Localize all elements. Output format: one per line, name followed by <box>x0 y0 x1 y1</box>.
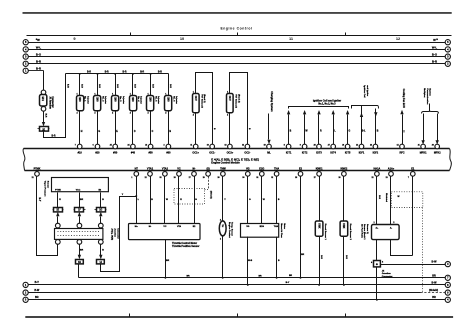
svg-text:12: 12 <box>242 145 244 147</box>
connector box 1G <box>97 208 106 212</box>
connector circle left A <box>23 40 28 45</box>
wire from injector 5 to ECM pin #50 <box>150 111 152 145</box>
wire from connector 1H to ground line <box>78 264 80 278</box>
svg-text:Throttle Position Sensor: Throttle Position Sensor <box>172 245 199 248</box>
svg-text:1N0: 1N0 <box>149 97 152 102</box>
svg-text:M-: M- <box>193 168 196 171</box>
svg-text:W-L: W-L <box>432 45 438 49</box>
node at throttle pin 1 branch <box>135 195 137 197</box>
ECM bottom pin (S) <box>206 172 211 177</box>
svg-text:B-Y: B-Y <box>38 198 40 202</box>
shield dotted box around AF sensor wires <box>391 192 422 208</box>
svg-text:No. 6: No. 6 <box>172 96 174 102</box>
wire ignition IGT3 to ECM <box>318 115 320 145</box>
svg-text:OC1-: OC1- <box>209 151 215 154</box>
svg-text:B-R: B-R <box>98 84 100 88</box>
junction connector dotted internals row 2 <box>58 235 101 237</box>
svg-text:BR: BR <box>80 199 84 201</box>
svg-text:B-R: B-R <box>87 72 91 74</box>
svg-text:23: 23 <box>386 177 388 179</box>
connector box 1E <box>54 208 63 212</box>
wire ECM E2 to sensor ground line <box>300 177 302 278</box>
ECM strip left torn edge <box>23 149 25 171</box>
ECM top pin IGF1 <box>359 144 364 149</box>
svg-text:18: 18 <box>174 177 176 179</box>
wire ECM to throttle pin 4 <box>178 177 180 224</box>
svg-text:21: 21 <box>32 177 34 179</box>
throttle control motor / throttle position sensor (box) <box>129 224 201 240</box>
svg-text:1: 1 <box>131 177 132 179</box>
svg-text:RFC: RFC <box>399 151 404 154</box>
svg-text:(Shield): (Shield) <box>210 191 212 199</box>
svg-text:Junction: Junction <box>382 272 392 275</box>
svg-text:27: 27 <box>328 145 330 147</box>
injector 2 (box) <box>94 96 101 111</box>
injector 5 (box) <box>147 96 154 111</box>
svg-text:31: 31 <box>418 145 420 147</box>
wire throttle ground pin to sensor ground line <box>165 240 167 278</box>
wire ECM KNK2 through knock sensor 2 <box>343 177 345 285</box>
wire from injector 1 to ECM pin #10 <box>79 111 81 145</box>
svg-text:B-W: B-W <box>432 261 438 264</box>
junction connector J5 (box with node) <box>374 261 381 267</box>
ECM bottom pin VTA1 <box>148 172 153 177</box>
svg-text:Knock Sensor 2: Knock Sensor 2 <box>349 224 351 241</box>
svg-text:(Shield): (Shield) <box>429 289 438 292</box>
wire from bus to injector 6 <box>168 74 170 96</box>
svg-text:1N0: 1N0 <box>131 97 134 102</box>
svg-text:#40: #40 <box>131 151 136 154</box>
svg-text:HT: HT <box>135 168 139 171</box>
svg-text:IGF2: IGF2 <box>373 151 379 154</box>
svg-text:W-L: W-L <box>36 45 42 49</box>
svg-text:Junction: Junction <box>114 228 117 238</box>
ECM top pin #20 <box>95 144 100 149</box>
air fuel ratio sensor (box) <box>372 225 400 240</box>
ECM bottom pin E2 <box>298 172 303 177</box>
svg-text:26: 26 <box>339 177 341 179</box>
arrow up into connector 1G <box>99 212 102 216</box>
wire ECM to throttle pin 3 <box>164 177 166 224</box>
ECM bottom pin VG <box>246 172 251 177</box>
bottom ruler tick 1 <box>129 314 131 317</box>
junction on injector bus <box>150 73 152 75</box>
ignition coil bracket line <box>289 107 349 109</box>
svg-text:B-R: B-R <box>116 84 118 88</box>
IGF bracket line <box>352 106 379 109</box>
svg-text:OC2+: OC2+ <box>227 151 234 154</box>
wire air flow meter pin to ground line B-Y <box>247 237 249 285</box>
ECM bottom pin THA <box>274 172 279 177</box>
wire ignition IGT4 to ECM <box>333 115 335 145</box>
multiplex brace <box>422 111 439 114</box>
svg-text:B-Y: B-Y <box>286 282 290 284</box>
wire from vapor sensor pin 3 <box>100 193 102 208</box>
svg-text:IGT3: IGT3 <box>316 151 322 154</box>
svg-text:19: 19 <box>264 145 266 147</box>
svg-text:B-Y: B-Y <box>35 281 40 284</box>
wire multiplex MPX1 with arrow down <box>423 114 425 141</box>
svg-text:2E: 2E <box>42 128 45 131</box>
junction on injector bus <box>132 73 134 75</box>
connector circle right shield <box>445 290 450 295</box>
svg-text:No.1, No.2, No.3: No.1, No.2, No.3 <box>318 103 336 105</box>
wire ignition IGT5 to ECM <box>347 115 349 145</box>
svg-text:IGT5: IGT5 <box>345 151 351 154</box>
wire from injector 2 to ECM pin #20 <box>97 111 99 145</box>
knock sensor 1 (box) <box>315 221 323 236</box>
svg-text:Engine Control Module: Engine Control Module <box>211 161 240 165</box>
ECM strip bottom edge <box>25 170 450 172</box>
ECM top pin #50 <box>148 144 153 149</box>
svg-text:Engine Control: Engine Control <box>221 26 253 30</box>
svg-text:B-R: B-R <box>134 84 136 88</box>
bottom ruler tick 2 <box>237 314 239 317</box>
svg-text:32: 32 <box>160 177 162 179</box>
svg-text:B-R: B-R <box>66 84 68 88</box>
wire ECM to throttle pin 2 <box>150 177 152 224</box>
svg-text:No. 3: No. 3 <box>119 96 121 102</box>
ECM top pin IGT5 <box>345 144 350 149</box>
wire ECM THW to coolant temp sensor <box>222 177 224 222</box>
svg-text:24: 24 <box>128 144 130 147</box>
connector circle right A <box>445 40 450 45</box>
wire ignition IGT1 to ECM <box>288 115 290 145</box>
svg-text:B-R: B-R <box>105 72 109 74</box>
connector circle right B-W top <box>445 262 450 267</box>
connector circle left BR <box>23 297 28 302</box>
svg-text:MPX2: MPX2 <box>434 151 441 154</box>
svg-text:#60: #60 <box>166 151 171 154</box>
wire ECM E1 down <box>412 177 414 256</box>
ECM bottom pin E2G <box>260 172 265 177</box>
svg-text:Temp. Sensor: Temp. Sensor <box>231 222 233 236</box>
bottom ruler tick 3 <box>345 314 347 317</box>
connector box 1J <box>97 260 105 264</box>
svg-text:30: 30 <box>432 145 434 147</box>
wire from junction pin 2 down with arrow into connector 1H <box>79 245 81 256</box>
shield drain dashed segment to connector <box>421 292 446 294</box>
svg-text:Air Fuel Ratio: Air Fuel Ratio <box>360 224 363 239</box>
svg-text:B-R: B-R <box>158 72 162 74</box>
wire from connector 1J up to throttle node <box>101 197 137 272</box>
svg-text:B-R: B-R <box>151 84 153 88</box>
connector circle left E <box>23 68 28 73</box>
connector circle left B-Y <box>23 282 28 287</box>
svg-text:Injector: Injector <box>104 96 107 104</box>
ECM bottom pin KNK1 <box>317 172 322 177</box>
svg-text:B-R: B-R <box>320 255 322 259</box>
arrow into fuse box <box>42 122 45 126</box>
wire from injector 6 to ECM pin #60 <box>168 111 170 145</box>
svg-text:9: 9 <box>300 145 301 147</box>
arrow up to cooling fan ECU and wire to ECM pin RFC <box>400 110 403 114</box>
top ruler line <box>27 35 452 37</box>
svg-text:BR: BR <box>432 296 436 299</box>
svg-text:B-R: B-R <box>378 195 380 199</box>
svg-text:10: 10 <box>180 36 184 41</box>
wire AF sensor pin loop to ECM E1 <box>391 240 413 256</box>
svg-text:B-R: B-R <box>80 84 82 88</box>
shield drain dotted wire down to shield ground line <box>422 208 424 293</box>
wire from bus to injector 3 <box>115 74 117 96</box>
svg-text:No. 1: No. 1 <box>84 96 86 102</box>
oil control valve OCV1 (box) <box>193 94 200 113</box>
ECM top pin OC2- <box>245 144 250 149</box>
wire from bus to injector 2 <box>97 74 99 96</box>
svg-text:A-: A- <box>390 226 393 229</box>
svg-text:Sensor: Sensor <box>46 181 48 188</box>
svg-text:VG: VG <box>246 226 249 228</box>
svg-text:W: W <box>433 38 436 42</box>
svg-text:1N0: 1N0 <box>78 97 81 102</box>
svg-text:B-R: B-R <box>36 67 41 71</box>
junction connector bottom pin 3 <box>98 240 103 245</box>
svg-text:1N0: 1N0 <box>167 97 170 102</box>
ECM bottom pin HT <box>134 172 139 177</box>
wire ECM to throttle pin 5 <box>194 177 196 224</box>
arrow up to ignition coil 3 <box>317 110 320 114</box>
junction connector J7 J8 (box) <box>55 229 103 240</box>
ECM top pin #60 <box>166 144 171 149</box>
svg-text:28: 28 <box>295 177 297 179</box>
svg-text:IGT4: IGT4 <box>330 151 336 154</box>
svg-text:14: 14 <box>397 144 399 147</box>
svg-text:A1A+: A1A+ <box>388 168 395 171</box>
svg-text:B-R: B-R <box>45 114 47 118</box>
ECM top pin IGT1 <box>286 144 291 149</box>
svg-text:Mass Air Flow: Mass Air Flow <box>280 223 283 238</box>
ECM bottom pin PTNK <box>35 172 40 177</box>
svg-text:1N0: 1N0 <box>113 97 116 102</box>
arrow down on IGF2 wire <box>375 109 377 145</box>
svg-text:26: 26 <box>342 145 344 147</box>
wire J5 to body ground connector right B-W <box>381 264 446 266</box>
svg-text:MPX1: MPX1 <box>420 151 427 154</box>
svg-text:ML: ML <box>267 151 271 154</box>
wire from connector E down to check connector <box>43 71 45 91</box>
svg-text:B-R: B-R <box>169 84 171 88</box>
junction on injector bus <box>114 73 116 75</box>
svg-text:#10: #10 <box>78 151 83 154</box>
injector 4 (box) <box>130 96 137 111</box>
svg-text:and Igniter: and Igniter <box>366 85 369 96</box>
svg-text:7: 7 <box>408 177 409 179</box>
svg-text:No. 2: No. 2 <box>102 96 104 102</box>
arrow up into connector 1F <box>78 212 81 216</box>
wire multiplex MPX2 with arrow down <box>437 114 439 141</box>
svg-text:Connector: Connector <box>116 228 119 239</box>
svg-text:10: 10 <box>207 145 209 147</box>
oil control valve OCV2 (box) <box>227 94 234 113</box>
svg-text:22: 22 <box>372 177 374 179</box>
junction on injector bus <box>97 73 99 75</box>
svg-text:W-B: W-B <box>248 260 253 262</box>
connector circle right B-W ground <box>445 282 450 287</box>
svg-text:B-O: B-O <box>36 53 42 57</box>
junction connector top pin 2 <box>77 223 82 228</box>
svg-text:BR: BR <box>432 274 436 277</box>
svg-text:IGT1: IGT1 <box>286 151 292 154</box>
svg-text:B-W: B-W <box>34 289 40 292</box>
shield box around throttle sensor wires <box>174 189 205 205</box>
knock sensor 2 (box) <box>340 221 348 236</box>
svg-text:Sensor (Bank 1: Sensor (Bank 1 <box>363 224 365 240</box>
svg-text:OC2-: OC2- <box>244 151 250 154</box>
connector circle left B <box>23 47 28 52</box>
svg-text:22: 22 <box>145 177 147 179</box>
svg-text:Engine Coolant: Engine Coolant <box>228 222 231 238</box>
camshaft timing oil control valve 1 loop wire <box>196 73 213 145</box>
wire PTNK from ECM down around to junction connector <box>37 177 58 256</box>
wire from vapor sensor pin 1 <box>57 193 59 208</box>
svg-text:B-W: B-W <box>432 281 438 284</box>
wire ignition IGT2 to ECM <box>304 115 306 145</box>
svg-text:B-R: B-R <box>36 60 41 64</box>
wire from injector 4 to ECM pin #40 <box>132 111 134 145</box>
svg-text:B-L: B-L <box>362 131 366 133</box>
svg-text:B-R: B-R <box>345 255 347 259</box>
svg-text:24: 24 <box>356 144 358 147</box>
svg-text:Meter: Meter <box>283 223 286 229</box>
arrow up to ignition coil 4 <box>332 110 335 114</box>
ECM top pin IGF2 <box>373 144 378 149</box>
fuse box 25 (EFI relay) <box>40 127 49 132</box>
ECM strip right torn edge <box>450 149 452 171</box>
svg-text:#50: #50 <box>149 151 154 154</box>
junction on sensor ground at E2 <box>300 277 302 279</box>
connector circle left B-W <box>23 290 28 295</box>
junction connector dotted internals row 1 <box>58 231 101 233</box>
wire from bus to injector 1 <box>79 74 81 96</box>
svg-text:KNK2: KNK2 <box>341 168 348 171</box>
connector J6 (check connector) <box>40 95 47 107</box>
injector 3 (box) <box>112 96 119 111</box>
injector 6 (box) <box>165 96 172 111</box>
wire ECM to throttle pin 1 <box>136 177 138 224</box>
wire ECM to sensor box pin 3 <box>276 177 278 224</box>
svg-text:23: 23 <box>370 145 372 147</box>
connector circle right B <box>445 47 450 52</box>
svg-text:1E: 1E <box>56 210 59 212</box>
pin 2 of check connector J6 <box>41 107 46 112</box>
svg-text:6: 6 <box>93 145 94 147</box>
ground line B-W left to shield dashed right <box>29 292 421 294</box>
wire W-L bus from node B left to right <box>29 49 446 51</box>
svg-text:#30: #30 <box>113 151 118 154</box>
wire from charging system with arrow down to ECM pin ML <box>268 114 270 140</box>
wire B-R below J6 <box>43 112 45 123</box>
svg-text:Injector: Injector <box>86 96 89 104</box>
svg-text:Vapor Pressure: Vapor Pressure <box>44 181 46 198</box>
wire AF sensor heater pin to J5 junction <box>376 240 378 261</box>
ECM top pin RFC <box>400 144 405 149</box>
ECM top pin #30 <box>113 144 118 149</box>
wire ECM A1A+ to AF sensor <box>390 177 392 225</box>
svg-text:B-R: B-R <box>52 136 56 138</box>
connector circle left C <box>23 54 28 59</box>
svg-text:Injector: Injector <box>157 96 160 104</box>
junction on sensor ground at throttle <box>164 277 166 279</box>
svg-text:Ignition Coil: Ignition Coil <box>363 85 366 98</box>
engine coolant temperature sensor (oval) <box>219 221 226 236</box>
vapor pressure sensor (box) <box>52 178 109 192</box>
svg-text:Sensor 1): Sensor 1) <box>366 224 368 234</box>
svg-text:J7(A), J8(B): J7(A), J8(B) <box>111 228 114 240</box>
junction on BR line at J5 <box>376 299 378 301</box>
svg-text:Shielded: Shielded <box>385 193 387 203</box>
svg-text:BR: BR <box>301 254 305 256</box>
wire from vapor sensor pin 2 <box>79 193 81 208</box>
svg-text:BR: BR <box>289 275 293 277</box>
svg-text:Knock Sensor 1: Knock Sensor 1 <box>324 224 326 241</box>
svg-text:B-R: B-R <box>123 72 127 74</box>
wire ECM to sensor box pin 2 <box>261 177 263 224</box>
svg-text:B-O: B-O <box>432 53 438 57</box>
ECM bottom pin A1A+ <box>389 172 394 177</box>
svg-text:1N0: 1N0 <box>96 97 99 102</box>
wire ECM HA1A to AF sensor <box>376 177 378 225</box>
svg-text:VC: VC <box>177 168 181 171</box>
ECM bottom pin M- <box>192 172 197 177</box>
svg-text:(Bank 1): (Bank 1) <box>203 94 205 103</box>
svg-text:#20: #20 <box>95 151 100 154</box>
wire from bus to injector 4 <box>132 74 134 96</box>
connector circle right BR sensor ground <box>445 275 450 280</box>
wire ECM to sensor box pin 1 <box>247 177 249 224</box>
ECM bottom pin THW <box>221 172 226 177</box>
ECM top pin MPX1 <box>421 144 426 149</box>
svg-text:IGT2: IGT2 <box>302 151 308 154</box>
svg-text:23: 23 <box>145 145 147 147</box>
svg-text:E2G: E2G <box>259 168 264 171</box>
mass air flow meter (box) <box>241 224 279 238</box>
ECM top pin IGT4 <box>331 144 336 149</box>
svg-text:VVT Solenoid: VVT Solenoid <box>235 94 237 108</box>
svg-text:7: 7 <box>75 145 76 147</box>
junction on injector bus <box>79 73 81 75</box>
svg-text:1G: 1G <box>99 210 102 212</box>
svg-text:VG: VG <box>246 168 250 171</box>
wire B-O bus from node C left to right <box>29 56 446 58</box>
ECM top pin ML <box>267 144 272 149</box>
svg-text:Injector: Injector <box>122 96 125 104</box>
wire from bus to injector 5 <box>150 74 152 96</box>
ground line B-Y left <box>29 284 446 286</box>
svg-text:BR: BR <box>80 250 84 252</box>
junction on B-Y line at knock sensor 1 <box>318 284 320 286</box>
svg-text:KNK: KNK <box>342 223 345 228</box>
svg-text:27: 27 <box>314 177 316 179</box>
svg-text:IGF1: IGF1 <box>359 151 365 154</box>
pin 1 of check connector J6 <box>41 90 46 95</box>
svg-text:VTA1: VTA1 <box>147 168 154 171</box>
svg-text:KNK1: KNK1 <box>316 168 323 171</box>
svg-text:W: W <box>37 38 40 42</box>
svg-text:J6 Junction: J6 Junction <box>48 96 51 109</box>
svg-text:B-R: B-R <box>432 60 437 64</box>
svg-text:EF1: EF1 <box>41 97 44 102</box>
svg-text:M-: M- <box>149 226 152 228</box>
wire coolant sensor to sensor ground line <box>222 236 224 278</box>
ECM bottom pin VTA2 <box>163 172 168 177</box>
svg-text:BR: BR <box>35 296 39 299</box>
svg-text:29: 29 <box>203 177 205 179</box>
svg-text:25: 25 <box>110 145 112 147</box>
svg-text:11: 11 <box>190 145 192 147</box>
ECM top pin MPX2 <box>435 144 440 149</box>
svg-text:Ignition Coil and Igniter: Ignition Coil and Igniter <box>313 100 341 103</box>
